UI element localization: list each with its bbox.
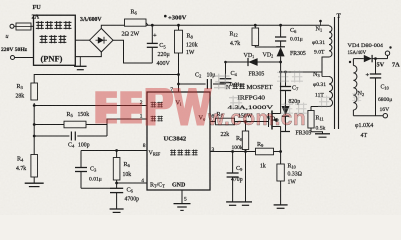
UC3842 inner label overcurrent detect <box>170 149 198 155</box>
UC3842 inner label RT/CT <box>150 183 165 189</box>
output + terminal 5V 7A <box>377 46 401 68</box>
resistor R9 1k sense filter <box>256 141 281 170</box>
bridge rectifier <box>90 28 114 52</box>
wire R3 bottom vertical feedback node <box>33 103 36 155</box>
UC3842 pin 7 stub <box>170 87 173 93</box>
ground under C6 <box>110 209 124 212</box>
wire input bottom to PNF <box>15 57 34 59</box>
wire pin 3 current sense <box>210 150 256 153</box>
UC3842 inner label Vi <box>176 100 182 107</box>
UC3842 pin 8 label <box>143 143 146 149</box>
label phi1.0X4 4T <box>355 123 373 139</box>
resistor R5 150k <box>34 111 107 128</box>
op-amp U1 UC3842 box <box>147 92 210 190</box>
resistor R7 22k gate <box>210 111 269 138</box>
wire PNF to bridge bottom-ac <box>75 52 101 57</box>
label 3A/600V <box>80 17 102 23</box>
UC3842 inner label Vref <box>149 151 161 157</box>
red watermark letter W <box>173 88 213 126</box>
diode VD3 FR305 aux <box>267 106 312 137</box>
UC3842 pin 5 stub and ground <box>174 190 191 210</box>
power noise filter PNF box <box>34 15 76 65</box>
fuse FU <box>14 23 34 30</box>
output - wire and terminal <box>353 114 387 118</box>
scan grain noise overlay <box>0 0 1 1</box>
UC3842 pin 6 label <box>212 114 215 120</box>
ground under R10 <box>274 205 288 208</box>
resistor R12 4.7k snubber <box>230 25 281 47</box>
input terminal (bottom) <box>11 56 15 60</box>
UC3842 pin 1 label <box>140 114 143 120</box>
red watermark letter E1 <box>95 91 117 123</box>
wire Vcc rail left to R3 <box>34 75 178 84</box>
UC3842 inner label GND <box>172 183 186 189</box>
+300V rail <box>146 23 329 27</box>
wire drain node <box>279 61 282 114</box>
wire to pin 2 feedback <box>34 105 147 107</box>
capacitor C2 10u Vcc filter <box>179 72 226 90</box>
diode VD4 D80-004 output rectifier <box>348 44 388 62</box>
resistor R11 0.5k aux <box>308 107 329 134</box>
ground under R11 <box>315 134 330 137</box>
resistor R3 28k <box>16 83 38 100</box>
red watermark letter P <box>146 88 174 126</box>
resistor R6 10k timing <box>113 151 131 181</box>
resistor R6 2R 2W <box>122 9 147 38</box>
ground under R4 <box>25 183 44 186</box>
resistor R10 0.33R 1W sense <box>277 164 303 205</box>
diode VD2 FR305 snubber <box>263 47 306 62</box>
capacitor C4 0.01u bootstrap <box>220 62 243 88</box>
transformer aux winding N3 <box>313 71 333 107</box>
MOSFET text 4.3A 1000V <box>228 105 274 111</box>
ground under C9 <box>226 202 239 205</box>
capacitor C4 100p <box>34 132 107 149</box>
diode VD1 FR305 <box>224 53 280 78</box>
wire pin 4 RT/CT <box>115 180 147 189</box>
UC3842 inner label buchang (comp) <box>151 116 163 122</box>
wire drain to primary N1 bottom <box>281 57 329 73</box>
MOSFET text N-channel MOSFET <box>226 83 273 91</box>
capacitor C10 6800u 16V <box>366 59 393 116</box>
transistor Q1 N-MOSFET IRFPG40 <box>269 111 281 130</box>
capacitor C3 0.01u Vref bypass <box>75 151 110 189</box>
capacitor C6 0.01u snubber <box>275 25 303 47</box>
UC3842 inner label Vo <box>199 115 206 122</box>
UC3842 inner label fankui (feedback) <box>151 102 163 108</box>
ground under R8 <box>239 202 252 205</box>
capacitor C6 4700p timing <box>110 187 139 210</box>
resistor R4 4.7k <box>16 155 38 184</box>
wire bridge plus output to R6 <box>101 25 124 28</box>
capacitor C7 820p <box>280 72 300 106</box>
wire Vcc vertical to pin7 <box>177 53 180 92</box>
wire PNF to bridge top-ac <box>75 39 89 41</box>
fuse FU label <box>32 4 42 21</box>
UC3842 pin 4 label <box>141 178 144 184</box>
label 220V 50Hz <box>1 47 28 53</box>
red watermark letter E2 <box>120 91 142 123</box>
label u <box>6 34 9 40</box>
resistor R8 120k 1W startup <box>175 25 198 56</box>
wire pin 8 Vref <box>81 149 147 152</box>
UC3842 pin 3 label <box>212 147 215 153</box>
pink watermark w.com.cn <box>207 107 306 130</box>
transformer core <box>335 13 342 130</box>
input terminal u (top) <box>10 24 14 28</box>
ground at filter output <box>74 57 87 70</box>
resistor R8 100k gate pulldown <box>232 122 249 202</box>
MOSFET text IRFPG40 <box>238 96 266 102</box>
MOSFET text 150W <box>238 114 253 120</box>
gray CJK watermark chars <box>214 71 361 115</box>
wire bridge minus to C5 negative bus <box>113 40 145 63</box>
UC3842 pin 2 label <box>140 100 143 106</box>
wire comp network to pin 1 <box>107 119 147 136</box>
label +300V <box>164 15 187 22</box>
wire MOSFET source down <box>279 127 282 165</box>
capacitor C5 220u 400V <box>145 25 171 67</box>
transformer secondary N2 <box>349 59 364 116</box>
capacitor C9 470p <box>227 152 244 202</box>
transformer T primary N1 <box>312 20 332 57</box>
